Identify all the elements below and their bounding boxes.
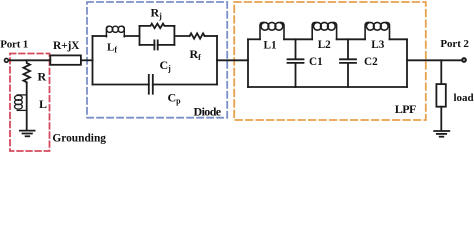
svg-text:Diode: Diode <box>194 104 222 118</box>
wire L3 to right node <box>390 38 408 40</box>
ground (load) <box>434 130 449 132</box>
wire loop to Rf <box>174 35 189 37</box>
red dashed grounding box <box>10 54 50 152</box>
wire to Lf <box>93 35 107 37</box>
svg-text:LPF: LPF <box>395 102 416 116</box>
blue dashed diode box <box>87 2 227 118</box>
svg-text:L: L <box>39 97 47 111</box>
svg-text:Cj: Cj <box>160 58 172 73</box>
svg-text:Grounding: Grounding <box>52 132 106 144</box>
node: diode left vertical <box>92 36 94 85</box>
svg-text:L2: L2 <box>318 39 331 51</box>
svg-text:load: load <box>454 92 474 104</box>
wire: diode bottom rail right <box>153 84 217 86</box>
port 2 terminal <box>462 58 466 62</box>
capacitor C1 <box>295 39 297 58</box>
wire Lf to RC loop <box>124 35 139 37</box>
node: diode right vertical <box>216 36 218 85</box>
svg-text:L1: L1 <box>264 40 277 52</box>
ground (port 1 branch) <box>20 130 35 132</box>
svg-text:L3: L3 <box>371 39 384 51</box>
wire port1 to R+jX <box>9 59 51 61</box>
svg-text:Port 2: Port 2 <box>440 38 469 50</box>
wire LPF to port 2 <box>407 59 462 61</box>
svg-text:Cp: Cp <box>168 91 182 106</box>
parallel RC loop frame <box>140 26 175 45</box>
capacitor Cp <box>149 75 153 94</box>
wire L1 to L2 <box>284 38 312 40</box>
wire L2 to L3 <box>337 38 366 40</box>
orange dashed LPF box <box>234 2 426 120</box>
capacitor Cj (bottom side) <box>140 44 175 46</box>
svg-text:R+jX: R+jX <box>53 40 80 52</box>
svg-text:Port 1: Port 1 <box>0 38 28 50</box>
wire diode to LPF <box>217 59 248 61</box>
wire to L1 <box>248 38 260 40</box>
node: LPF left vertical <box>247 39 249 87</box>
resistor R+jX (box) <box>50 55 81 64</box>
inductor L3 <box>365 22 389 39</box>
wire Rf to right node <box>205 35 217 37</box>
wire load to ground <box>440 107 442 130</box>
svg-text:C2: C2 <box>364 56 378 68</box>
resistor Rf (zigzag) <box>190 33 205 38</box>
wire R+jX to diode <box>81 59 93 61</box>
node: LPF right vertical <box>406 39 408 87</box>
svg-text:R: R <box>38 70 47 84</box>
inductor L2 <box>312 22 336 39</box>
resistor R (zigzag, grounding branch) <box>23 60 30 83</box>
inductor L (vertical coil) <box>26 83 28 130</box>
wire: LPF bottom rail <box>248 86 407 88</box>
wire: diode bottom rail left <box>93 84 149 86</box>
capacitor C2 <box>347 39 349 58</box>
inductor Lf <box>106 26 124 37</box>
svg-text:Lf: Lf <box>107 42 117 55</box>
svg-text:Rf: Rf <box>190 47 202 62</box>
svg-text:C1: C1 <box>309 56 323 68</box>
inductor L1 <box>260 22 284 39</box>
port 1 terminal <box>5 58 9 62</box>
wire: load branch <box>440 60 442 84</box>
resistor load (box) <box>436 84 445 107</box>
resistor Rj (zigzag top side) <box>140 24 175 29</box>
svg-text:Rj: Rj <box>151 6 163 21</box>
